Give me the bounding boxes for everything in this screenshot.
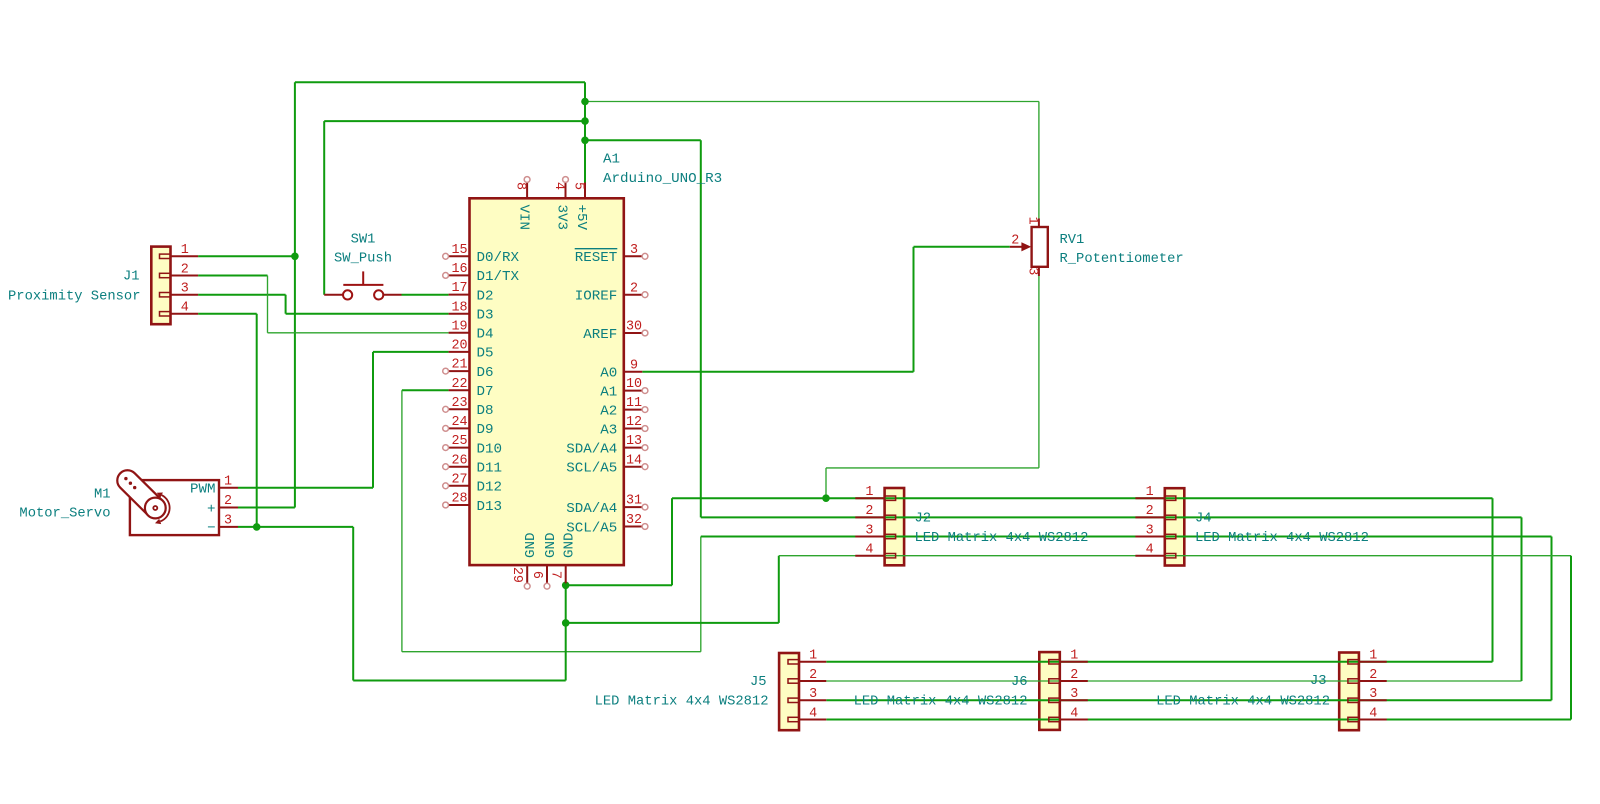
svg-text:2: 2 [1369, 668, 1377, 683]
wire row4 right drop [1570, 556, 1572, 720]
Arduino A1 body [470, 198, 624, 565]
svg-text:1: 1 [865, 485, 873, 500]
svg-text:4: 4 [1070, 706, 1078, 721]
svg-text:3: 3 [630, 243, 638, 258]
svg-text:24: 24 [451, 415, 467, 430]
J3 pin 4 [1348, 717, 1359, 721]
svg-text:23: 23 [451, 396, 467, 411]
svg-text:1: 1 [224, 474, 232, 489]
svg-text:9: 9 [630, 358, 638, 373]
svg-text:D11: D11 [477, 461, 503, 477]
svg-text:1: 1 [1369, 649, 1377, 664]
wire J1 pin4 drop [256, 314, 258, 527]
svg-text:Motor_Servo: Motor_Servo [19, 507, 110, 522]
svg-text:18: 18 [451, 300, 467, 315]
wire J1 pin2 out [198, 275, 267, 277]
switch SW1 actuator bar [343, 284, 383, 286]
svg-text:D6: D6 [477, 365, 494, 381]
wire row4 bottom bus [826, 719, 1571, 721]
junction +5V / J1 pin1 [291, 252, 299, 260]
svg-text:27: 27 [451, 472, 467, 487]
J2 pin 1 [885, 496, 896, 500]
A1 pin 7 (GND) [565, 565, 567, 583]
svg-text:8: 8 [513, 182, 528, 190]
svg-text:7: 7 [548, 571, 563, 579]
wire J1 pin4 out [198, 313, 257, 315]
svg-text:D8: D8 [477, 403, 494, 419]
J2 pin 2 [885, 515, 896, 519]
A1 pin 2 (IOREF) [624, 294, 643, 296]
svg-text:2: 2 [1011, 234, 1019, 249]
svg-text:29: 29 [509, 567, 524, 583]
svg-text:GND: GND [543, 532, 559, 558]
svg-text:3: 3 [865, 523, 873, 538]
switch SW1 right stub [384, 294, 402, 296]
svg-text:+5V: +5V [573, 205, 589, 231]
J5 pin 2 [788, 679, 799, 683]
svg-text:12: 12 [626, 415, 642, 430]
wire row4 riser [778, 556, 780, 623]
svg-text:2: 2 [1070, 668, 1078, 683]
svg-text:25: 25 [451, 434, 467, 449]
A1 pin 25 (D10) [449, 447, 470, 449]
potentiometer RV1 body [1032, 227, 1048, 267]
svg-text:LED Matrix 4x4 WS2812: LED Matrix 4x4 WS2812 [595, 694, 769, 710]
connector J5 body [779, 653, 799, 730]
svg-text:11: 11 [626, 396, 642, 411]
A1 pin 32 (SCL/A5) [624, 526, 643, 528]
svg-text:3: 3 [1369, 687, 1377, 702]
junction +5V / row2 branch [581, 137, 589, 145]
svg-text:32: 32 [626, 513, 642, 528]
wire +5V rail to RV1 [585, 101, 1039, 103]
wire +5V left drop to M1 pin2 [294, 82, 296, 507]
switch SW1 right contact [374, 290, 383, 299]
svg-text:J3: J3 [1310, 674, 1327, 689]
J1 pin 3 [160, 293, 171, 297]
J1 pin 4 [160, 312, 171, 316]
svg-text:2: 2 [630, 281, 638, 296]
svg-text:1: 1 [181, 243, 189, 258]
M1 pin 2 (+) [219, 507, 238, 509]
svg-text:14: 14 [626, 453, 642, 468]
A1 pin 11 (A2) [624, 409, 643, 411]
A1 pin 23 (D8) [449, 408, 470, 410]
J1 pin 1 [160, 254, 171, 258]
M1 rotation arrow [160, 495, 169, 521]
A1 pin 3 (RESET) [624, 255, 643, 257]
svg-text:VIN: VIN [515, 205, 531, 231]
svg-text:R_Potentiometer: R_Potentiometer [1060, 251, 1184, 267]
svg-text:D12: D12 [477, 480, 503, 496]
svg-text:2: 2 [1146, 504, 1154, 519]
wire +5V branch to LED row2 [585, 139, 701, 141]
svg-text:Arduino_UNO_R3: Arduino_UNO_R3 [603, 171, 722, 187]
wire D5 drop to M1 pin1 [372, 352, 374, 488]
wire row2 top bus [701, 516, 1522, 518]
svg-text:26: 26 [451, 453, 467, 468]
svg-text:Proximity Sensor: Proximity Sensor [8, 289, 140, 305]
svg-text:D7: D7 [477, 384, 494, 400]
wire J1 pin3 jog [285, 295, 287, 314]
wire row3 top bus [701, 536, 1552, 538]
svg-text:17: 17 [451, 281, 467, 296]
connector J1 body [151, 247, 170, 325]
wire J1 pin3 out [198, 294, 286, 296]
svg-text:A2: A2 [600, 403, 617, 419]
wire SW1 to D2 [402, 294, 449, 296]
switch SW1 actuator stem [362, 271, 364, 285]
svg-text:A1: A1 [603, 152, 620, 168]
svg-text:4: 4 [809, 706, 817, 721]
svg-text:D9: D9 [477, 422, 494, 438]
svg-text:LED Matrix 4x4 WS2812: LED Matrix 4x4 WS2812 [854, 694, 1028, 710]
wire gnd riser [565, 585, 567, 680]
RESET overline [575, 248, 618, 250]
svg-text:A0: A0 [600, 366, 617, 382]
wire RV1 pin3 to row1 [825, 468, 827, 498]
M1 pulley center [153, 506, 157, 510]
A1 pin 13 (SDA/A4) [624, 447, 643, 449]
A1 pin 27 (D12) [449, 485, 470, 487]
svg-text:D2: D2 [477, 288, 494, 304]
J1 pin 2 [160, 273, 171, 277]
svg-text:3: 3 [809, 687, 817, 702]
svg-text:3V3: 3V3 [554, 205, 570, 231]
A1 pin 26 (D11) [449, 466, 470, 468]
M1 pin 3 (−) [219, 526, 238, 528]
svg-text:D1/TX: D1/TX [477, 269, 520, 285]
M1 servo pulley [145, 498, 166, 519]
svg-text:3: 3 [1024, 267, 1039, 275]
svg-text:SDA/A4: SDA/A4 [566, 441, 617, 457]
svg-text:4: 4 [551, 182, 566, 190]
J4 pin 1 [1165, 496, 1176, 500]
svg-text:10: 10 [626, 377, 642, 392]
wire M1 pin2 to +5V drop [238, 507, 295, 509]
svg-text:LED Matrix 4x4 WS2812: LED Matrix 4x4 WS2812 [1195, 530, 1369, 546]
A1 pin 9 (A0) [624, 371, 643, 373]
wire A0 riser [913, 247, 915, 372]
wire M1 pin3 drop [352, 527, 354, 681]
J3 pin 2 [1348, 679, 1359, 683]
wire D7 link under arduino [402, 651, 701, 653]
wire row1 bottom bus [826, 661, 1492, 663]
wire gnd to row4 link [566, 622, 779, 624]
M1 servo arm holes [124, 477, 127, 480]
A1 pin 5 (+5V) [584, 183, 586, 199]
M1 servo arm [113, 466, 170, 522]
svg-text:D0/RX: D0/RX [477, 250, 520, 266]
svg-text:A3: A3 [600, 422, 617, 438]
wire row3 bottom bus [826, 699, 1551, 701]
svg-text:22: 22 [451, 377, 467, 392]
svg-text:AREF: AREF [583, 327, 617, 343]
A1 pin 31 (SDA/A4) [624, 506, 643, 508]
svg-text:19: 19 [451, 319, 467, 334]
wire LED row2 drop [700, 140, 702, 517]
wire to RV1 wiper [914, 246, 1010, 248]
wire +5V top rail [295, 81, 585, 83]
junction row1 / RV1 pin3 [822, 494, 830, 502]
J3 pin 1 [1348, 660, 1359, 664]
svg-text:20: 20 [451, 339, 467, 354]
wire +5V rail to SW1 [324, 120, 585, 122]
svg-text:D5: D5 [477, 346, 494, 362]
svg-text:4: 4 [1146, 543, 1154, 558]
J4 pin 2 [1165, 515, 1176, 519]
svg-text:IOREF: IOREF [575, 289, 618, 305]
junction +5V / SW1 branch [581, 117, 589, 125]
wire J1 pin1 to +5V drop [198, 255, 295, 257]
wire row2 bottom bus [826, 680, 1521, 682]
wire to D4 [268, 332, 449, 334]
svg-text:A1: A1 [600, 384, 617, 400]
svg-text:D10: D10 [477, 441, 503, 457]
svg-text:2: 2 [181, 262, 189, 277]
A1 pin 10 (A1) [624, 390, 643, 392]
J4 pin 3 [1165, 534, 1176, 538]
svg-text:1: 1 [1024, 217, 1039, 225]
switch SW1 left contact [343, 290, 352, 299]
svg-text:J1: J1 [123, 270, 140, 285]
wire D5 out [373, 351, 449, 353]
wire SW1 left drop [323, 121, 325, 295]
wire D7 out [402, 389, 449, 391]
wire RV1 pin1 riser [1038, 102, 1040, 219]
svg-text:1: 1 [1070, 649, 1078, 664]
svg-text:15: 15 [451, 243, 467, 258]
svg-text:J4: J4 [1195, 512, 1212, 527]
A1 pin 18 (D3) [449, 313, 470, 315]
A1 pin 12 (A3) [624, 428, 643, 430]
svg-text:J5: J5 [750, 675, 767, 690]
wire to D3 [286, 313, 449, 315]
svg-text:21: 21 [451, 358, 467, 373]
svg-text:3: 3 [1146, 523, 1154, 538]
svg-text:16: 16 [451, 262, 467, 277]
svg-text:SW1: SW1 [351, 232, 376, 247]
J2 pin 3 [885, 534, 896, 538]
svg-text:D4: D4 [477, 327, 494, 343]
svg-text:13: 13 [626, 434, 642, 449]
svg-text:J2: J2 [915, 512, 932, 527]
RV1 pin 3 stub [1038, 267, 1040, 276]
A1 pin 24 (D9) [449, 427, 470, 429]
A1 pin 17 (D2) [449, 294, 470, 296]
svg-text:2: 2 [224, 494, 232, 509]
svg-text:D3: D3 [477, 308, 494, 324]
J6 pin 3 [1049, 698, 1060, 702]
svg-text:2: 2 [809, 668, 817, 683]
A1 pin 16 (D1/TX) [449, 274, 470, 276]
junction GND / M1 pin3 / J1 pin4 [253, 523, 261, 531]
junction GND pin7 [562, 582, 570, 590]
svg-text:LED Matrix 4x4 WS2812: LED Matrix 4x4 WS2812 [1156, 694, 1330, 710]
svg-text:1: 1 [809, 649, 817, 664]
wire RV1 pin3 link [826, 467, 1039, 469]
A1 pin 6 (GND) [546, 565, 548, 583]
svg-text:M1: M1 [94, 488, 111, 503]
svg-text:4: 4 [865, 543, 873, 558]
svg-text:28: 28 [451, 492, 467, 507]
svg-text:−: − [207, 521, 216, 537]
M1 pin 1 (PWM) [219, 487, 238, 489]
wire row3 riser [700, 537, 702, 652]
J4 pin 4 [1165, 554, 1176, 558]
svg-text:D13: D13 [477, 499, 503, 515]
svg-text:SCL/A5: SCL/A5 [566, 461, 617, 477]
A1 pin 30 (AREF) [624, 332, 643, 334]
A1 pin 21 (D6) [449, 370, 470, 372]
connector J4 body [1165, 488, 1185, 565]
svg-text:RESET: RESET [575, 250, 618, 266]
svg-text:5: 5 [570, 182, 585, 190]
svg-text:3: 3 [181, 282, 189, 297]
J5 pin 1 [788, 660, 799, 664]
J6 pin 4 [1049, 717, 1060, 721]
junction +5V / RV1 branch [581, 98, 589, 106]
A1 pin 14 (SCL/A5) [624, 466, 643, 468]
motor M1 body [130, 480, 219, 535]
RV1 pin 1 stub [1038, 218, 1040, 227]
switch SW1 left stub [324, 294, 343, 296]
wire A0 out [642, 371, 913, 373]
svg-text:+: + [207, 501, 216, 517]
svg-text:3: 3 [1070, 687, 1078, 702]
svg-text:6: 6 [529, 571, 544, 579]
J3 pin 3 [1348, 698, 1359, 702]
connector J6 body [1039, 652, 1060, 730]
svg-text:PWM: PWM [190, 482, 216, 498]
J6 pin 1 [1049, 660, 1060, 664]
J2 pin 4 [885, 554, 896, 558]
wire J1 pin2 drop [267, 276, 269, 333]
A1 pin 4 (3V3) [565, 183, 567, 199]
A1 pin 8 (VIN) [526, 183, 528, 199]
wire M1 pin3 out [238, 526, 353, 528]
wire row1 riser [671, 498, 673, 585]
J5 pin 4 [788, 717, 799, 721]
svg-text:SW_Push: SW_Push [334, 251, 392, 267]
wire gnd bottom link [353, 680, 566, 682]
wire RV1 pin3 drop [1038, 276, 1040, 468]
A1 pin 29 (GND) [526, 565, 528, 583]
wire row1 top bus [672, 497, 1493, 499]
svg-text:SDA/A4: SDA/A4 [566, 501, 617, 517]
A1 pin 28 (D13) [449, 504, 470, 506]
wire row1 right drop [1492, 498, 1494, 662]
svg-text:1: 1 [1146, 485, 1154, 500]
A1 pin 15 (D0/RX) [449, 255, 470, 257]
junction GND / row4 branch [562, 619, 570, 627]
svg-text:4: 4 [181, 301, 189, 316]
RV1 wiper pin 2 [1010, 246, 1022, 248]
svg-text:31: 31 [626, 494, 642, 509]
wire M1 pin1 PWM [238, 487, 373, 489]
svg-text:3: 3 [224, 514, 232, 529]
wire gnd to row1 link [566, 584, 672, 586]
svg-text:LED Matrix 4x4 WS2812: LED Matrix 4x4 WS2812 [915, 530, 1089, 546]
svg-text:RV1: RV1 [1060, 233, 1085, 248]
wire row2 right drop [1521, 517, 1523, 681]
J6 pin 2 [1049, 679, 1060, 683]
svg-text:GND: GND [562, 532, 578, 558]
svg-text:4: 4 [1369, 706, 1377, 721]
wire row4 top bus [779, 555, 1571, 557]
connector J3 body [1339, 653, 1359, 731]
svg-text:30: 30 [626, 320, 642, 335]
wire D7 drop [401, 390, 403, 652]
A1 pin 20 (D5) [449, 351, 470, 353]
A1 pin 19 (D4) [449, 332, 470, 334]
connector J2 body [885, 488, 905, 565]
A1 pin 22 (D7) [449, 389, 470, 391]
svg-text:J6: J6 [1011, 675, 1028, 690]
svg-text:GND: GND [523, 532, 539, 558]
wire row3 right drop [1551, 537, 1553, 701]
wire +5V pin riser [584, 82, 586, 182]
J5 pin 3 [788, 698, 799, 702]
svg-text:2: 2 [865, 504, 873, 519]
